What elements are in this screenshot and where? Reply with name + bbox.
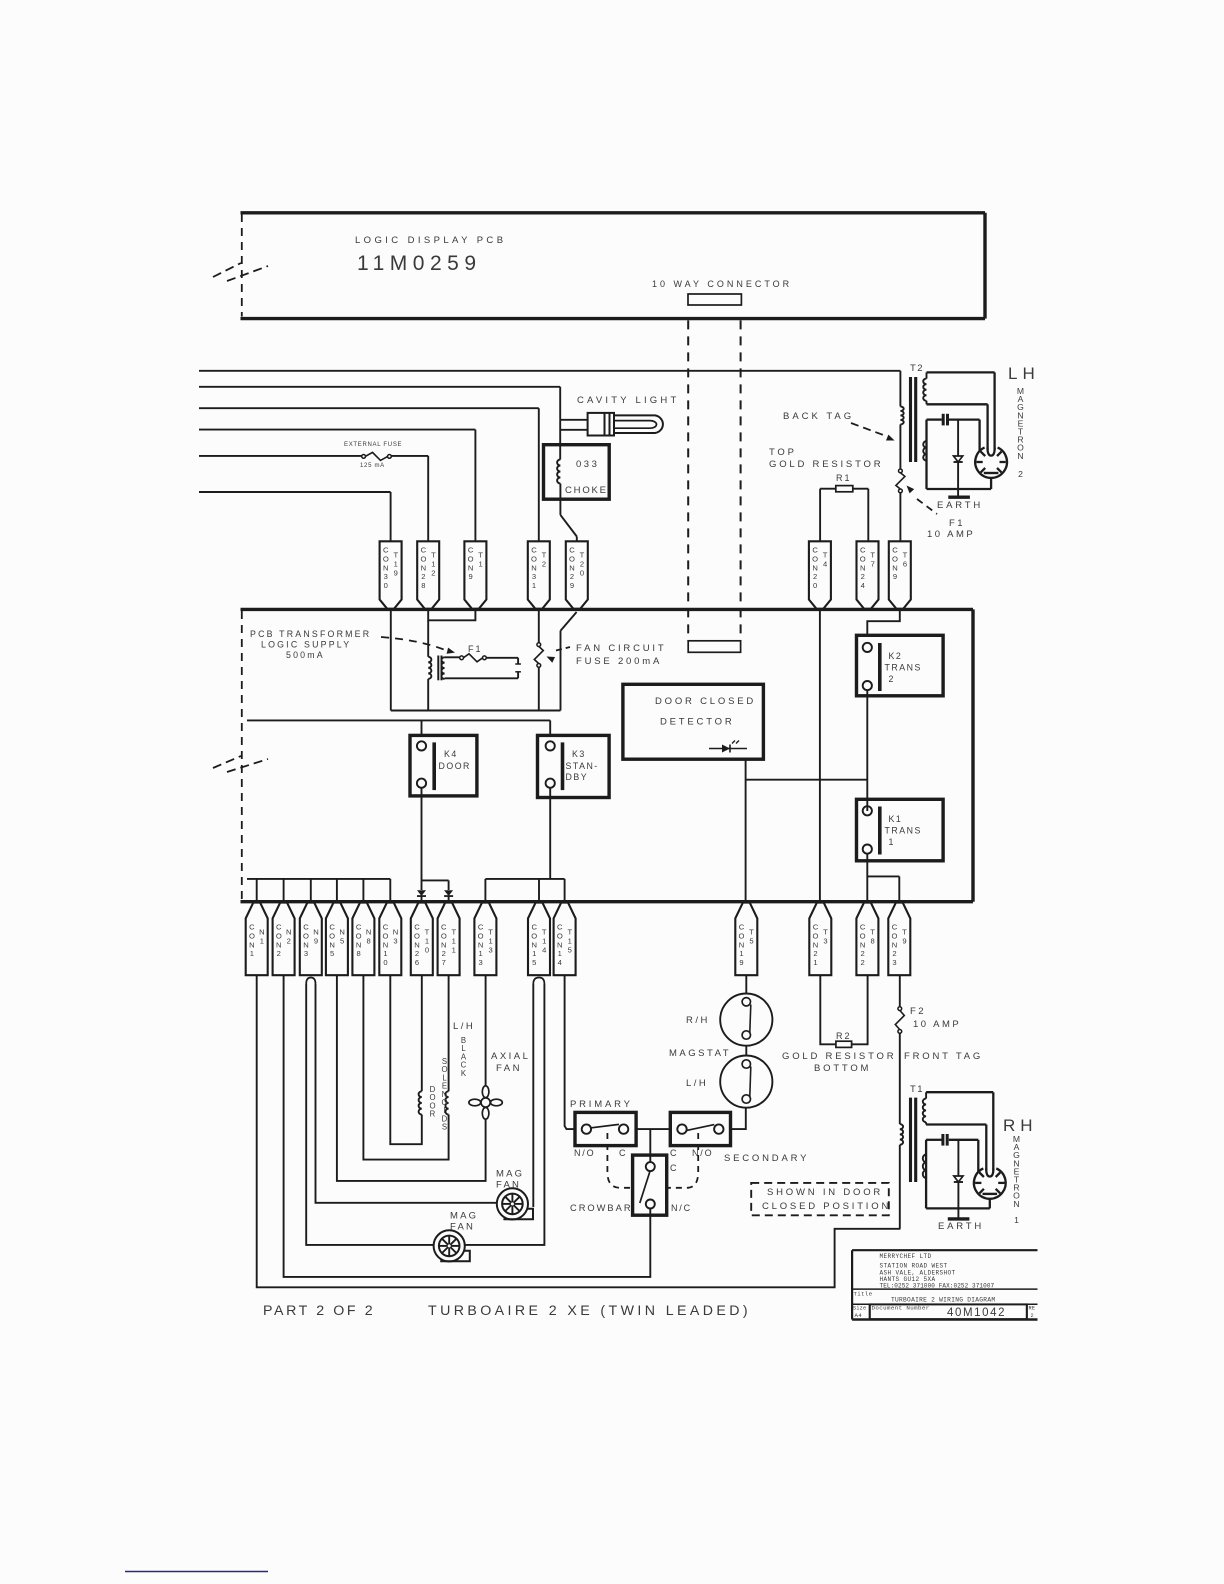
twin lead fork at CON15 T14: [533, 978, 544, 985]
svg-text:CHOKE: CHOKE: [565, 485, 608, 496]
svg-text:Size: Size: [853, 1306, 866, 1312]
label F2 10 AMP: [910, 1006, 961, 1030]
detector diode symbol: [709, 741, 747, 753]
wire between magstats: [745, 1046, 747, 1056]
wire CON1 N1 return to T1 primary: [257, 975, 901, 1287]
fan circuit fuse 200mA: [534, 611, 543, 711]
svg-text:Document Number: Document Number: [872, 1305, 930, 1312]
connector CON30 T19: [380, 541, 402, 609]
earth symbol RH: [948, 1217, 970, 1220]
svg-text:K4: K4: [444, 749, 458, 759]
caption PART 2 OF 2 TURBOAIRE 2 XE (TWIN LEADED): [263, 1303, 751, 1319]
door closed detector box: [623, 684, 764, 759]
svg-text:RH: RH: [1003, 1116, 1038, 1135]
transformer T2 core: [911, 377, 916, 462]
wire R2 to CON22: [852, 975, 868, 1044]
wire CON15 outer leg to lower mag fan: [465, 984, 544, 1245]
10 way connector block bottom: [688, 641, 740, 653]
svg-text:LOGIC SUPPLY: LOGIC SUPPLY: [261, 640, 351, 650]
connector bar CON13 CON15 CON14: [485, 879, 564, 902]
T2 secondary HV coil: [923, 379, 926, 401]
svg-text:BACK TAG: BACK TAG: [783, 411, 854, 422]
control box outline right edge: [971, 609, 974, 901]
connector CON1 N1: [246, 903, 268, 976]
wire bus L4 to CON9 T1: [199, 430, 475, 542]
resistor R1: [836, 486, 853, 492]
wire choke to CON29: [560, 484, 576, 542]
title block title row: [854, 1291, 996, 1304]
svg-text:T9: T9: [902, 928, 907, 946]
svg-text:T5: T5: [749, 928, 754, 946]
connector CON3 N9: [300, 903, 322, 976]
logic supply secondary return with connector gap: [445, 658, 521, 679]
connector CON5 N5: [326, 903, 348, 976]
label L/H BLACK: [453, 1021, 475, 1078]
capacitor LH magnetron: [943, 414, 947, 426]
svg-text:DETECTOR: DETECTOR: [660, 717, 734, 728]
connector CON29 T20: [566, 541, 588, 609]
svg-text:N2: N2: [286, 928, 291, 946]
relay K2 TRANS 2: [857, 635, 944, 696]
arrow fan circuit pointer: [547, 647, 571, 663]
control box outline bottom rail: [241, 900, 974, 903]
svg-text:T6: T6: [903, 551, 908, 569]
svg-text:BOTTOM: BOTTOM: [814, 1063, 871, 1074]
magstat R/H thermostat: [720, 994, 772, 1046]
svg-text:MAGNETRON: MAGNETRON: [1013, 1134, 1020, 1209]
wire R1 to CON20 and CON24: [820, 489, 868, 542]
svg-text:T1: T1: [478, 551, 483, 569]
svg-text:MAGNETRON: MAGNETRON: [1017, 386, 1024, 461]
svg-text:N1: N1: [259, 928, 264, 946]
svg-text:PRIMARY: PRIMARY: [570, 1099, 633, 1110]
svg-text:BLACK: BLACK: [461, 1036, 467, 1078]
svg-text:FAN CIRCUIT: FAN CIRCUIT: [576, 643, 666, 654]
door solenoid coil: [419, 975, 422, 1116]
upper mag fan: [497, 1188, 533, 1219]
wire CON3 outer leg to lower mag fan: [306, 984, 433, 1245]
blue underline mark: [125, 1571, 268, 1573]
label MAG FAN upper: [496, 1169, 524, 1191]
wire CON29 to fan rail: [561, 612, 577, 711]
svg-text:AXIAL: AXIAL: [491, 1051, 530, 1062]
wire CON19 to R/H magstat: [745, 975, 747, 994]
fuse F1 500mA circuit: [445, 654, 518, 662]
fuse F2 10 amp: [898, 1007, 902, 1011]
svg-text:SHOWN IN DOOR: SHOWN IN DOOR: [767, 1187, 883, 1198]
svg-text:N3: N3: [393, 928, 398, 946]
connector CON22 T8: [856, 903, 878, 976]
svg-text:DOOR: DOOR: [439, 761, 471, 771]
svg-text:GOLD RESISTOR: GOLD RESISTOR: [769, 459, 883, 470]
wire CON8 N8 to LH solenoid: [363, 975, 448, 1159]
svg-text:N/O: N/O: [692, 1148, 713, 1158]
svg-text:TURBOAIRE 2 WIRING DIAGRAM: TURBOAIRE 2 WIRING DIAGRAM: [891, 1297, 995, 1304]
svg-text:1: 1: [889, 837, 895, 847]
svg-text:LH: LH: [1008, 364, 1040, 383]
svg-text:DBY: DBY: [566, 772, 589, 782]
wire bus L1 to T2 primary: [199, 371, 900, 407]
label TOP GOLD RESISTOR: [769, 447, 883, 470]
svg-text:T14: T14: [542, 928, 547, 955]
wire CON20 T4 through box to CON21: [819, 611, 821, 902]
svg-text:STAN-: STAN-: [566, 761, 599, 771]
control box dashed left border: [241, 611, 243, 900]
label PCB TRANSFORMER LOGIC SUPPLY 500mA: [250, 629, 371, 660]
connector CON9 T6: [889, 541, 911, 609]
T2 filament winding: [923, 441, 926, 461]
connector CON26 T10: [411, 903, 433, 976]
svg-text:SECONDARY: SECONDARY: [724, 1153, 809, 1164]
connector CON14 T15: [554, 903, 576, 976]
svg-text:TOP: TOP: [769, 447, 797, 458]
svg-text:FAN: FAN: [450, 1222, 475, 1233]
svg-text:SOLENOIDS: SOLENOIDS: [441, 1057, 447, 1132]
svg-text:PCB TRANSFORMER: PCB TRANSFORMER: [250, 629, 371, 639]
lower mag fan: [434, 1230, 470, 1261]
10 way connector block on PCB: [688, 294, 741, 305]
svg-text:DOOR CLOSED: DOOR CLOSED: [655, 696, 756, 707]
svg-text:K1: K1: [889, 814, 903, 824]
svg-text:R2: R2: [836, 1031, 852, 1041]
svg-text:T7: T7: [870, 551, 875, 569]
svg-text:T2: T2: [910, 363, 924, 374]
primary interlock switch: [575, 1112, 636, 1145]
earth symbol LH: [948, 496, 970, 499]
svg-text:T3: T3: [823, 928, 828, 946]
svg-text:K2: K2: [889, 651, 903, 661]
connector CON19 T5: [735, 903, 757, 976]
PCB transformer core: [438, 656, 441, 681]
label F1 10 AMP with arrow: [907, 486, 976, 541]
magstat L/H thermostat: [720, 1056, 772, 1108]
note box SHOWN IN DOOR CLOSED POSITION: [751, 1183, 891, 1215]
wire K2 to K1: [866, 690, 868, 811]
label FAN CIRCUIT FUSE 200mA: [576, 643, 666, 667]
svg-text:500mA: 500mA: [286, 650, 325, 660]
title block company text: [880, 1253, 995, 1290]
svg-text:10 AMP: 10 AMP: [913, 1019, 961, 1030]
title block size and number: [853, 1305, 1035, 1320]
svg-text:TRANS: TRANS: [885, 663, 922, 673]
LH solenoid coil: [445, 975, 448, 1116]
svg-text:T1: T1: [910, 1084, 924, 1095]
wire K1 to CON22 CON23: [867, 854, 899, 902]
svg-text:MAG: MAG: [496, 1169, 524, 1180]
wire detector output to K1 K2 junction: [746, 779, 868, 781]
logic supply bottom rail: [391, 710, 561, 712]
break mark on control box border: [213, 756, 268, 772]
svg-text:N5: N5: [339, 928, 344, 946]
wire bus L6 to CON30: [199, 492, 391, 541]
wire F2 to T1 primary: [899, 1033, 901, 1124]
T2 primary coil: [900, 407, 903, 470]
svg-text:T2: T2: [542, 551, 547, 569]
capacitor RH magnetron: [943, 1134, 947, 1146]
svg-text:11M0259: 11M0259: [357, 252, 482, 275]
svg-text:A4: A4: [855, 1312, 863, 1319]
10 way connector dashed cable left: [687, 320, 689, 640]
wire bus L3 to CON31: [199, 408, 539, 541]
LH magnetron filament circuit loop: [927, 420, 992, 489]
wire K4 coil to diodes: [422, 788, 449, 890]
svg-text:TURBOAIRE 2 XE (TWIN LEADED): TURBOAIRE 2 XE (TWIN LEADED): [428, 1303, 751, 1319]
svg-text:MAG: MAG: [450, 1211, 478, 1222]
wire detector to CON19: [745, 759, 747, 902]
svg-text:10 AMP: 10 AMP: [927, 529, 975, 540]
RH magnetron filament circuit loop: [926, 1140, 990, 1209]
wire bus L2 to cavity light: [199, 387, 560, 420]
wire CON2 N2 to crowbar: [284, 975, 651, 1277]
PCB transformer primary wire: [428, 620, 431, 710]
svg-text:FAN: FAN: [496, 1063, 522, 1074]
svg-text:F2: F2: [910, 1006, 926, 1017]
wire CON10 N3 to door solenoid: [390, 975, 422, 1144]
relay K1 TRANS 1: [857, 799, 944, 861]
svg-text:PART 2 OF 2: PART 2 OF 2: [263, 1303, 375, 1319]
diode at CON27: [444, 890, 453, 902]
diode RH magnetron: [954, 1140, 963, 1218]
wire CON3 inner leg to upper mag fan: [316, 984, 497, 1203]
svg-text:F1: F1: [949, 518, 965, 529]
twin lead fork at CON3 N9: [306, 978, 315, 985]
wire relay supply rail: [247, 720, 550, 736]
svg-text:GOLD RESISTOR: GOLD RESISTOR: [782, 1051, 896, 1062]
choke coil: [557, 460, 560, 484]
connector CON27 T11: [438, 903, 460, 976]
diode LH magnetron: [954, 420, 963, 496]
break mark on PCB border: [213, 263, 268, 281]
svg-text:1: 1: [1014, 1215, 1019, 1225]
wire CON30 into logic supply rail: [390, 611, 392, 711]
mechanical link dashed secondary to crowbar: [667, 1133, 698, 1188]
wire CON5 N5 to axial fan branch: [337, 975, 486, 1181]
connector CON23 T9: [888, 903, 910, 976]
wire junction to crowbar common: [649, 1129, 651, 1162]
svg-text:DOOR: DOOR: [429, 1085, 435, 1119]
wire T1 secondary top to magnetron anode lead: [926, 1092, 993, 1170]
svg-text:LOGIC DISPLAY PCB: LOGIC DISPLAY PCB: [355, 235, 506, 246]
svg-text:033: 033: [576, 459, 599, 470]
svg-text:T12: T12: [431, 551, 436, 578]
svg-text:40M1042: 40M1042: [947, 1307, 1006, 1319]
wire secondary to magstat: [731, 1108, 746, 1129]
PCB transformer secondary: [441, 657, 444, 679]
wire bridge CON28 CON9: [428, 611, 475, 620]
svg-text:N9: N9: [313, 928, 318, 946]
svg-text:L/H: L/H: [686, 1078, 708, 1089]
svg-text:TRANS: TRANS: [885, 826, 922, 836]
diode at CON26: [417, 890, 426, 902]
svg-text:EXTERNAL FUSE: EXTERNAL FUSE: [344, 442, 402, 448]
title block: [852, 1250, 1037, 1319]
mechanical link dashed primary to crowbar: [607, 1133, 632, 1188]
wire CON15 inner leg to upper mag fan outlet: [532, 984, 534, 1207]
magnetron 2 LH: [975, 448, 1007, 478]
connector CON9 T1: [464, 541, 486, 609]
wire T2 secondary bottom heater lead: [927, 401, 988, 450]
connector CON13 T13: [474, 903, 496, 976]
svg-text:EARTH: EARTH: [937, 500, 983, 511]
connector CON21 T3: [809, 903, 831, 976]
PCB dashed left border: [241, 214, 243, 317]
wire T1 secondary bottom heater lead: [926, 1122, 986, 1170]
svg-text:MERRYCHEF LTD: MERRYCHEF LTD: [880, 1253, 932, 1260]
arrow PCB transformer pointer: [381, 637, 455, 654]
svg-text:2: 2: [1031, 1313, 1034, 1319]
svg-text:K3: K3: [572, 749, 586, 759]
axial fan: [469, 1086, 502, 1119]
svg-text:N/C: N/C: [671, 1203, 692, 1213]
secondary interlock switch: [670, 1112, 730, 1145]
svg-text:FAN: FAN: [496, 1180, 521, 1191]
connector CON24 T7: [857, 541, 879, 609]
label BACK TAG with arrow: [783, 411, 895, 441]
svg-text:C: C: [670, 1163, 678, 1173]
svg-text:T10: T10: [425, 928, 430, 955]
connector CON31 T2: [528, 541, 550, 609]
svg-text:CLOSED POSITION: CLOSED POSITION: [762, 1201, 891, 1212]
svg-text:Title: Title: [854, 1291, 873, 1298]
svg-text:MAGSTAT: MAGSTAT: [669, 1048, 731, 1059]
neutral bus bar to pods: [247, 879, 390, 902]
connector CON2 N2: [273, 903, 295, 976]
wire K3 coil to connector bar: [549, 788, 551, 879]
svg-text:2: 2: [1018, 469, 1023, 479]
label MAG FAN lower: [450, 1211, 478, 1233]
svg-text:T8: T8: [870, 928, 875, 946]
svg-text:R/H: R/H: [686, 1015, 710, 1026]
crowbar switch: [633, 1155, 667, 1215]
10 way connector dashed cable right: [740, 320, 742, 640]
choke 033 box: [544, 445, 610, 500]
svg-text:T4: T4: [823, 551, 828, 569]
svg-text:N8: N8: [366, 928, 371, 946]
T1 filament winding: [923, 1155, 926, 1179]
wire primary to secondary: [636, 1128, 670, 1130]
connector CON20 T4: [809, 541, 831, 609]
svg-text:C: C: [670, 1148, 678, 1158]
svg-text:T19: T19: [393, 551, 398, 578]
svg-text:EARTH: EARTH: [938, 1221, 984, 1232]
T1 primary coil: [900, 1124, 903, 1229]
svg-text:R1: R1: [836, 473, 852, 483]
connector CON15 T14: [528, 903, 550, 976]
wire cavity light to choke: [560, 420, 587, 460]
wire bus L5 with external fuse to CON28: [199, 456, 428, 541]
wire CON14 T15 to primary switch: [565, 975, 575, 1129]
svg-text:125 mA: 125 mA: [360, 463, 385, 469]
wire CON23 to F2: [899, 975, 901, 1007]
cavity light lamp: [588, 413, 663, 436]
svg-text:F1: F1: [468, 644, 483, 654]
relay K4 DOOR: [410, 735, 477, 796]
svg-text:N/O: N/O: [574, 1148, 595, 1158]
connector CON10 N3: [379, 903, 401, 976]
T1 secondary HV coil: [923, 1099, 926, 1123]
wire CON9 T6 to K2 coil: [867, 611, 900, 635]
transformer T1 core: [911, 1098, 916, 1182]
wire F1 to CON9 T6: [899, 493, 901, 542]
svg-text:T13: T13: [488, 928, 493, 955]
svg-text:RE: RE: [1029, 1306, 1036, 1312]
svg-text:CAVITY LIGHT: CAVITY LIGHT: [577, 395, 679, 406]
external fuse 125 mA: [362, 452, 392, 460]
svg-text:TEL:0252 371000 FAX:0252 37100: TEL:0252 371000 FAX:0252 371007: [880, 1283, 995, 1290]
connector CON8 N8: [352, 903, 374, 976]
wire CON21 to R2: [820, 975, 836, 1044]
svg-text:T11: T11: [451, 928, 456, 955]
svg-text:T20: T20: [580, 551, 585, 578]
wire T2 secondary top to magnetron anode lead: [927, 372, 995, 449]
svg-text:T15: T15: [567, 928, 572, 955]
svg-text:FUSE 200mA: FUSE 200mA: [576, 656, 662, 667]
label GOLD RESISTOR BOTTOM: [782, 1051, 896, 1074]
label MAGNETRON 2 vertical: [1017, 386, 1024, 479]
label AXIAL FAN: [491, 1051, 530, 1074]
magnetron 1 RH: [974, 1168, 1006, 1198]
logic display PCB 11M0259 outline: [241, 213, 986, 319]
svg-text:CROWBAR: CROWBAR: [570, 1203, 633, 1213]
label MAGNETRON 1 vertical: [1013, 1134, 1020, 1225]
connector CON28 T12: [417, 541, 439, 609]
fuse F1 10 amp: [899, 469, 903, 473]
relay K3 STANDBY: [538, 735, 610, 797]
wire CON13 T13 through axial fan: [485, 975, 487, 1086]
svg-text:FRONT TAG: FRONT TAG: [904, 1051, 983, 1062]
svg-text:10 WAY CONNECTOR: 10 WAY CONNECTOR: [652, 279, 792, 289]
control box outline top rail: [241, 608, 974, 611]
svg-text:C: C: [619, 1148, 627, 1158]
svg-text:2: 2: [889, 674, 895, 684]
svg-text:L/H: L/H: [453, 1021, 475, 1032]
resistor R2: [836, 1041, 852, 1047]
